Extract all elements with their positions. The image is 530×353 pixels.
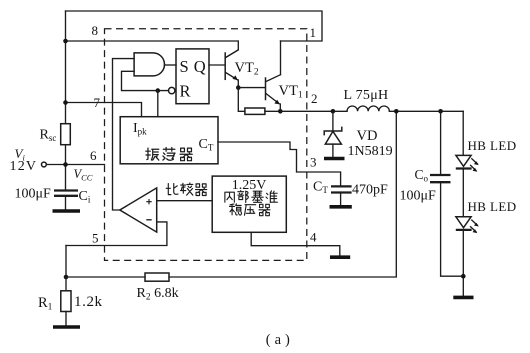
comparator U1c (120, 188, 157, 232)
svg-text:CT: CT (313, 179, 328, 195)
resistor Rsc (61, 124, 71, 145)
regulator label text 内部基准 (225, 191, 277, 203)
reference regulator block 1.25V (212, 176, 286, 232)
svg-text:R: R (180, 81, 191, 100)
transistor VT1 (266, 75, 281, 105)
svg-text:R1: R1 (38, 295, 53, 313)
node junction dot pin7/left rail (63, 100, 68, 105)
wire oscillator to R-line junction (157, 91, 159, 117)
inductor L (347, 106, 389, 111)
ground below CT cap (330, 205, 352, 209)
and-gate U1a (134, 53, 164, 76)
wire D2 to return node (462, 231, 464, 295)
svg-text:VT2: VT2 (235, 60, 259, 78)
wire Q output to VT2 base (209, 64, 225, 66)
wire oscillator CT to pin 3 timing cap (218, 142, 341, 185)
svg-text:4: 4 (310, 230, 317, 245)
wire R1 to ground (65, 312, 67, 326)
wire reference to comparator plus input (157, 200, 213, 202)
ground below LED string (453, 296, 473, 300)
node junction dot Vin (63, 162, 68, 167)
IC dashed boundary box (105, 29, 307, 261)
resistor R2 (145, 273, 169, 281)
comparator plus input mark (146, 199, 151, 204)
svg-text:HB LED: HB LED (468, 138, 517, 153)
svg-text:R2 6.8k: R2 6.8k (137, 286, 179, 303)
wire left input column vertical (Vi rail) (65, 11, 67, 190)
wire VT1 emitter to node (279, 104, 281, 111)
svg-text:HB LED: HB LED (468, 199, 517, 214)
node junction dot LED return (461, 274, 466, 279)
svg-text:Q: Q (194, 57, 206, 76)
wire V+ input top rail from left column to pin 1 drop (66, 11, 323, 41)
regulator label text 稳压器 (230, 204, 271, 216)
svg-text:3: 3 (310, 155, 317, 170)
latch R inverting bubble (169, 87, 175, 93)
ground below Ci (53, 209, 81, 213)
wire CT cap to ground (340, 194, 342, 205)
capacitor CT plates (331, 186, 352, 192)
transistor VT2 (225, 50, 238, 80)
comparator minus input mark (146, 219, 151, 221)
wire AND bottom input to R line (122, 71, 169, 90)
svg-text:12V: 12V (10, 159, 38, 174)
ground below R1 (53, 325, 80, 329)
svg-text:Ci: Ci (79, 189, 91, 205)
node junction dot diode tap (331, 109, 336, 114)
capacitor Co plates (430, 175, 451, 182)
wire node to VT1 base (238, 87, 264, 89)
node junction dot pin8/left rail (63, 39, 68, 44)
svg-text:Ipk: Ipk (133, 121, 147, 137)
svg-text:5: 5 (92, 231, 99, 246)
LED D1 HB LED (456, 155, 479, 171)
node junction dot Co at rail (438, 109, 443, 114)
svg-text:(a): (a) (266, 332, 294, 348)
oscillator block box (120, 117, 218, 164)
svg-text:100μF: 100μF (400, 188, 437, 203)
node junction dot VT2 emitter (236, 85, 241, 90)
ground below diode (324, 157, 345, 161)
wire AND output to S input (165, 64, 177, 66)
svg-text:8: 8 (92, 23, 99, 38)
svg-text:VT1: VT1 (279, 83, 303, 101)
wire VT1 collector to pin 1 (280, 41, 282, 75)
svg-text:1.2k: 1.2k (74, 294, 103, 310)
wire pin 8 to VT2 collector (66, 41, 239, 57)
wire Co to LED return (441, 183, 464, 276)
svg-text:CT: CT (199, 137, 214, 153)
wire node down to base resistor (238, 88, 245, 112)
svg-text:1N5819: 1N5819 (348, 144, 393, 159)
node junction dot feedback divider (64, 275, 69, 280)
wire pin 5 to feedback divider junction (65, 246, 67, 278)
input terminal Vi circle (42, 162, 47, 167)
svg-text:S: S (180, 57, 189, 76)
svg-text:VD: VD (357, 128, 378, 144)
wire pin 2 output rail to inductor and LEDs (280, 110, 463, 112)
svg-text:6: 6 (90, 148, 97, 163)
comparator label text 比较器 (166, 183, 207, 195)
node junction dot feedback at rail (394, 109, 399, 114)
wire rail corner down to LED string (462, 111, 464, 155)
capacitor Ci plates (54, 191, 78, 196)
wire VT2 emitter to node (237, 80, 239, 88)
resistor R1 (61, 291, 71, 312)
wire R2 to output feedback vertical (169, 111, 396, 277)
wire pin 7 to oscillator Ipk input (66, 103, 142, 117)
oscillator label text 振荡器 (146, 147, 192, 160)
node junction dot on R line (156, 88, 161, 93)
wire junction to R1 (65, 277, 67, 291)
svg-text:470pF: 470pF (352, 182, 388, 197)
svg-text:2: 2 (311, 91, 318, 106)
node junction dot switch output (278, 109, 283, 114)
diode VD 1N5819 schottky (324, 111, 342, 156)
wire comparator minus input to pin 5 (66, 222, 167, 246)
svg-text:VCC: VCC (74, 167, 93, 183)
latch U1b SR flip-flop box (176, 49, 209, 104)
wire D1 to D2 (462, 170, 464, 217)
resistor VT1 base-emitter (245, 108, 265, 114)
svg-text:Rsc: Rsc (40, 127, 57, 143)
svg-text:Co: Co (415, 167, 429, 184)
svg-text:100μF: 100μF (15, 187, 52, 202)
wire Ci to ground (65, 197, 67, 209)
wire base resistor to emitter node (265, 110, 280, 112)
svg-text:1: 1 (310, 25, 317, 40)
wire junction to R2 (66, 276, 145, 278)
wire rail to Co (440, 111, 442, 174)
wire input terminal to node (46, 164, 65, 166)
LED D2 HB LED (456, 217, 479, 233)
svg-text:L 75μH: L 75μH (344, 88, 389, 103)
wire regulator ground to pin 4 (251, 232, 340, 255)
wire comparator output to AND top input (113, 59, 135, 210)
ground below pin 4 (330, 255, 350, 259)
wire pin 6 Vcc (66, 164, 105, 166)
